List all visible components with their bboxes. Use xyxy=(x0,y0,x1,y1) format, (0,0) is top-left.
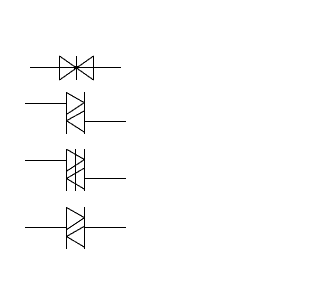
wire xyxy=(30,67,121,69)
junction dot xyxy=(74,66,79,69)
top triangle lower edge xyxy=(67,218,85,230)
top triangle lower edge xyxy=(67,160,85,172)
right wire xyxy=(85,227,127,229)
top triangle upper edge xyxy=(67,149,85,159)
bottom triangle lower edge xyxy=(67,121,85,133)
bottom triangle upper edge xyxy=(67,226,85,236)
diagonal top-left to bottom-right xyxy=(60,56,94,80)
left bar xyxy=(66,149,68,191)
right bar xyxy=(93,56,95,80)
left wire xyxy=(25,227,67,229)
right bar xyxy=(84,92,86,134)
bottom triangle upper edge xyxy=(67,168,85,179)
right wire xyxy=(85,178,127,180)
right wire xyxy=(85,121,127,123)
top triangle upper edge xyxy=(67,208,85,218)
left wire xyxy=(25,160,67,162)
bottom triangle upper edge xyxy=(67,111,85,121)
center bar xyxy=(76,56,78,80)
bottom triangle lower edge xyxy=(67,179,85,190)
schematic: four diac symbol variants xyxy=(0,0,150,300)
bottom triangle lower edge xyxy=(67,237,85,248)
right bar xyxy=(84,149,86,191)
left bar xyxy=(66,207,68,249)
left bar xyxy=(66,92,68,134)
diagonal bottom-left to top-right xyxy=(60,56,94,80)
center bar xyxy=(75,149,77,191)
right bar xyxy=(84,207,86,249)
top triangle lower edge xyxy=(67,103,85,115)
left bar xyxy=(59,56,61,80)
left wire xyxy=(25,103,67,105)
top triangle upper edge xyxy=(67,93,85,103)
